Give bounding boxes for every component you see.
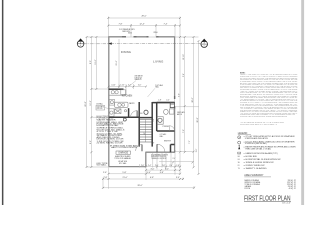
left wall bbox=[108, 37, 110, 167]
svg-text:POINTS PER THE BUILDING CODE R: POINTS PER THE BUILDING CODE REQUIREMENT… bbox=[240, 116, 287, 118]
svg-text:5'-6": 5'-6" bbox=[178, 93, 180, 97]
svg-text:= SINGLE HUNG WINDOW: = SINGLE HUNG WINDOW bbox=[244, 162, 275, 164]
section marker right bbox=[108, 39, 207, 48]
section marker left bbox=[77, 38, 108, 47]
svg-text:TG: TG bbox=[238, 168, 240, 170]
svg-text:996 SQ. FT.: 996 SQ. FT. bbox=[288, 180, 297, 182]
stair right wall bbox=[151, 102, 153, 147]
front wall (entry) bbox=[145, 151, 175, 153]
svg-text:4'-10": 4'-10" bbox=[111, 85, 116, 87]
svg-text:3'-0": 3'-0" bbox=[151, 168, 155, 170]
right columns bbox=[179, 37, 181, 152]
bottom extensions bbox=[107, 167, 109, 189]
garage boxed label bbox=[116, 151, 131, 154]
svg-text:6'-8": 6'-8" bbox=[150, 177, 154, 179]
svg-text:1/4" = 1'-0": 1/4" = 1'-0" bbox=[282, 202, 291, 204]
pwdr door arc bbox=[169, 126, 174, 131]
svg-text:21'-6": 21'-6" bbox=[116, 60, 118, 65]
svg-text:28'-0": 28'-0" bbox=[137, 185, 142, 187]
svg-text:FX: FX bbox=[238, 165, 240, 167]
svg-text:= HOSE BIB: = HOSE BIB bbox=[244, 156, 257, 158]
svg-text:ENTRY: ENTRY bbox=[164, 140, 172, 142]
interior small dims bbox=[109, 86, 146, 88]
right page edge band bbox=[301, 0, 304, 205]
interior dining dim bbox=[118, 39, 120, 87]
svg-text:6'-2": 6'-2" bbox=[165, 168, 169, 170]
svg-text:26'-8": 26'-8" bbox=[197, 117, 199, 122]
pwdr left wall bbox=[156, 103, 158, 131]
svg-text:10'-10": 10'-10" bbox=[183, 54, 185, 60]
interior walls (dark) bbox=[109, 89, 175, 152]
svg-text:3'-4": 3'-4" bbox=[183, 73, 185, 77]
left page edge bbox=[2, 0, 4, 205]
svg-text:CO: CO bbox=[238, 153, 240, 155]
svg-text:4'-2": 4'-2" bbox=[128, 85, 132, 87]
kitchen counters & appliances bbox=[109, 89, 128, 116]
svg-text:28'-0": 28'-0" bbox=[192, 97, 194, 102]
pwdr bottom wall bbox=[157, 130, 175, 132]
svg-text:UP: UP bbox=[144, 132, 146, 134]
svg-text:8'-0": 8'-0" bbox=[90, 60, 92, 64]
garage front wall bbox=[109, 166, 146, 168]
svg-text:21'-0": 21'-0" bbox=[122, 177, 127, 179]
svg-text:7'-2": 7'-2" bbox=[183, 129, 185, 133]
svg-text:7'-8": 7'-8" bbox=[119, 23, 123, 25]
entry door arc bbox=[157, 144, 165, 152]
svg-text:5'-4": 5'-4" bbox=[147, 172, 151, 174]
dimension texts bbox=[103, 15, 180, 187]
svg-text:& CLG. TYPE X GB: & CLG. TYPE X GB bbox=[97, 131, 118, 133]
svg-text:46 SQ. FT.: 46 SQ. FT. bbox=[289, 188, 297, 190]
top wall bbox=[108, 36, 175, 38]
svg-text:HB: HB bbox=[238, 156, 240, 158]
door arcs bbox=[131, 111, 175, 153]
utility: washer dryer bbox=[109, 99, 114, 105]
garage door arc bbox=[136, 145, 142, 151]
svg-text:2'-4": 2'-4" bbox=[148, 165, 152, 167]
cabinet leader notes bbox=[135, 75, 164, 89]
svg-text:12'-4": 12'-4" bbox=[139, 23, 144, 25]
utility divider bbox=[128, 108, 130, 117]
svg-text:6: 6 bbox=[80, 45, 81, 47]
pwdr top wall bbox=[152, 102, 174, 104]
svg-text:3'-4": 3'-4" bbox=[176, 177, 180, 179]
garage top wall bbox=[109, 116, 139, 118]
svg-text:4'-8": 4'-8" bbox=[160, 172, 164, 174]
dimension ticks bbox=[86, 17, 200, 189]
svg-text:2'-6": 2'-6" bbox=[103, 172, 107, 174]
garage top door arc bbox=[131, 111, 138, 118]
entry closet wall bbox=[171, 145, 175, 153]
svg-text:SH: SH bbox=[238, 162, 240, 164]
stairs treads bbox=[140, 120, 152, 143]
svg-text:3'-6": 3'-6" bbox=[196, 148, 198, 152]
svg-text:W 12 PREMIUM VINYL: W 12 PREMIUM VINYL bbox=[119, 29, 135, 31]
svg-text:2'-6": 2'-6" bbox=[169, 165, 173, 167]
svg-text:PWDR: PWDR bbox=[163, 126, 170, 128]
bottom rows bbox=[139, 166, 181, 168]
pwdr fixtures bbox=[157, 102, 175, 124]
svg-text:8'-2": 8'-2" bbox=[90, 140, 92, 144]
svg-text:2'-6": 2'-6" bbox=[138, 85, 142, 87]
svg-text:2'-8": 2'-8" bbox=[162, 165, 166, 167]
svg-text:5/8 TYPE X: 5/8 TYPE X bbox=[97, 106, 104, 108]
svg-text:19'-0": 19'-0" bbox=[95, 59, 97, 64]
svg-text:1-3/8 SOLID CORE OR: 1-3/8 SOLID CORE OR bbox=[97, 141, 124, 143]
svg-text:6: 6 bbox=[204, 45, 205, 47]
svg-text:3'-0": 3'-0" bbox=[153, 118, 155, 121]
svg-text:1297 SQ. FT.: 1297 SQ. FT. bbox=[287, 182, 297, 184]
svg-text:= FIXED WINDOW: = FIXED WINDOW bbox=[244, 165, 266, 167]
svg-text:TOP OF 42": TOP OF 42" bbox=[135, 77, 143, 79]
svg-text:THRESHOLD SUPPORT: THRESHOLD SUPPORT bbox=[151, 158, 167, 160]
svg-text:2'-8": 2'-8" bbox=[104, 177, 108, 179]
svg-text:KITCHEN: KITCHEN bbox=[122, 94, 133, 97]
svg-text:3068 ENTRY DOOR W/: 3068 ENTRY DOOR W/ bbox=[151, 156, 166, 158]
svg-text:290 SQ. FT.: 290 SQ. FT. bbox=[288, 186, 297, 188]
ref bbox=[115, 109, 121, 114]
svg-text:DEVICE 20 MIN. DOOR: DEVICE 20 MIN. DOOR bbox=[97, 139, 124, 141]
svg-text:26'-8": 26'-8" bbox=[85, 101, 87, 106]
svg-text:HS: HS bbox=[238, 159, 240, 161]
right wall bbox=[174, 37, 176, 153]
svg-text:WINDOWS: WINDOWS bbox=[122, 31, 130, 33]
svg-text:28'-0": 28'-0" bbox=[141, 15, 146, 17]
svg-text:GYP. BD.: GYP. BD. bbox=[97, 108, 103, 110]
fireplace bbox=[170, 102, 174, 107]
svg-text:LIVING: LIVING bbox=[153, 60, 163, 64]
island bbox=[115, 102, 129, 107]
stair left wall bbox=[138, 102, 140, 147]
svg-text:5'-8": 5'-8" bbox=[122, 172, 126, 174]
svg-text:2293 SQ. FT.: 2293 SQ. FT. bbox=[287, 184, 297, 186]
svg-text:2'-6": 2'-6" bbox=[173, 158, 176, 160]
svg-text:7'-2": 7'-2" bbox=[189, 140, 191, 144]
left notes stack bbox=[96, 103, 125, 167]
svg-text:NOTE:: NOTE: bbox=[240, 72, 246, 74]
svg-text:PORCH: PORCH bbox=[245, 188, 251, 190]
darker wall accents at window jambs bbox=[122, 37, 175, 109]
svg-text:4'-0": 4'-0" bbox=[166, 99, 170, 101]
svg-text:DINING: DINING bbox=[121, 50, 131, 54]
svg-text:2850: 2850 bbox=[153, 32, 157, 34]
svg-text:1'-8": 1'-8" bbox=[176, 165, 180, 167]
svg-text:6X6 TYPE: 6X6 TYPE bbox=[97, 163, 108, 165]
top extension lines bbox=[107, 17, 109, 38]
svg-text:7'-4": 7'-4" bbox=[164, 23, 168, 25]
garage water heater symbol bbox=[123, 118, 126, 121]
left columns bbox=[86, 37, 88, 167]
svg-text:WH: WH bbox=[140, 113, 142, 115]
top overall bbox=[108, 17, 180, 19]
exterior walls bbox=[108, 37, 175, 167]
svg-text:2'-0": 2'-0" bbox=[155, 165, 159, 167]
svg-text:SOLID CORE. GL MIN.: SOLID CORE. GL MIN. bbox=[97, 133, 124, 135]
svg-text:GARAGE: GARAGE bbox=[118, 152, 128, 155]
svg-text:2'-8": 2'-8" bbox=[141, 165, 145, 167]
kitchen half wall bbox=[109, 88, 124, 90]
windows (white gaps + thin glazing) bbox=[126, 36, 176, 106]
mech closet bottom bbox=[139, 117, 152, 119]
garage/house step bbox=[145, 152, 147, 166]
mech closet water heater bbox=[144, 110, 148, 114]
svg-text:10'-2": 10'-2" bbox=[90, 100, 92, 105]
svg-text:1'-10": 1'-10" bbox=[120, 85, 125, 87]
